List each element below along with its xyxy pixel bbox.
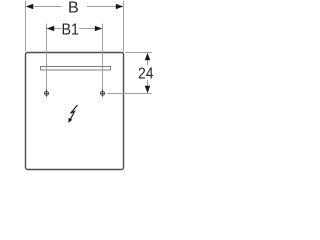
wire extension line B1 left [46,24,48,91]
wire extension line 24 top [125,52,152,54]
dimension line B1 [47,28,61,30]
mounting point right [100,89,105,97]
power symbol lightning bolt [68,105,77,123]
mounting point left [44,89,49,97]
wire extension line B right [123,1,125,52]
mirror outline [26,53,124,170]
dimension line 24 [147,53,149,65]
arrow B left [26,4,33,10]
arrow 24 down [145,86,151,93]
arrow B1 right [95,26,102,32]
arrow B1 left [47,26,54,32]
wire extension line B left [25,1,27,52]
wire extension line B1 right [102,24,104,91]
svg-text:24: 24 [138,65,154,82]
arrow B right [116,4,123,10]
wire extension line 24 bottom [108,93,152,95]
svg-text:B1: B1 [61,21,79,38]
svg-text:B: B [68,0,79,17]
dimension line B [26,6,61,8]
light bar [41,67,111,71]
arrow 24 up [145,53,151,60]
